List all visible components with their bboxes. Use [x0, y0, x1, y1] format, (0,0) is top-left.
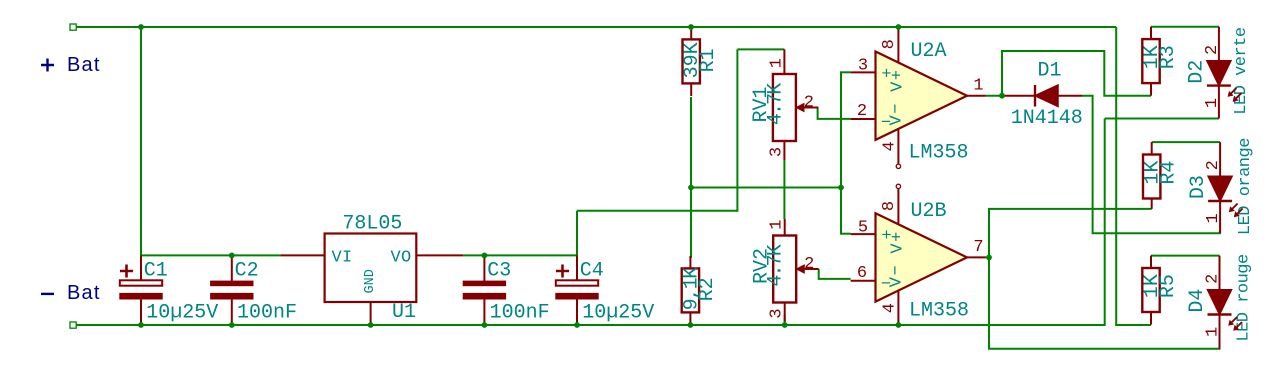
LED D4 body: [1208, 290, 1232, 315]
resistor R2 lead top: [689, 256, 691, 268]
op-amp U2A pin + input: [851, 71, 876, 73]
wire R5-D4 bridge: [1151, 255, 1220, 257]
svg-text:1: 1: [1204, 213, 1223, 223]
wire mid node horizontal: [691, 187, 841, 189]
wire U2B out node: [986, 256, 990, 258]
svg-text:U2A: U2A: [911, 40, 947, 63]
resistor R4 lead top: [1151, 142, 1153, 154]
op-amp U2B pin V+ line: [897, 188, 899, 224]
regulator U1 pin GND: [370, 302, 372, 325]
resistor R3 lead bottom: [1150, 83, 1152, 96]
junction (1002,95.7): [999, 93, 1005, 99]
op-amp U2B body: [876, 213, 968, 301]
diode D1 lead left: [1002, 95, 1035, 97]
svg-text:2: 2: [857, 102, 867, 121]
LED D2 emission arrows: [1229, 88, 1236, 95]
capacitor C1 lead bottom: [140, 299, 142, 325]
op-amp U2B pin V- line: [897, 291, 899, 325]
svg-text:C1: C1: [144, 260, 168, 283]
label - Bat: [41, 293, 54, 295]
svg-text:2: 2: [1203, 45, 1222, 55]
svg-text:2: 2: [1204, 274, 1223, 284]
svg-text:1: 1: [973, 77, 983, 96]
wire mid node to R2 top: [690, 188, 692, 259]
diode D1 body: [1035, 85, 1058, 107]
resistor R2 lead bottom: [689, 312, 691, 325]
resistor R1 lead bottom: [690, 83, 692, 96]
junction (841,187.5): [838, 185, 844, 191]
junction (784.7,325): [782, 322, 788, 328]
wire +Bat top rail: [77, 26, 1117, 28]
junction (141,325): [138, 322, 144, 328]
svg-text:3: 3: [767, 147, 786, 157]
regulator U1 pin VI: [280, 254, 324, 256]
svg-text:C2: C2: [235, 260, 259, 283]
svg-text:8: 8: [880, 39, 899, 49]
capacitor C4 lead top: [576, 255, 578, 281]
capacitor C3 bottom plate: [463, 293, 505, 299]
capacitor C2 lead bottom: [231, 299, 233, 325]
op-amp U2B pin - input: [851, 280, 876, 282]
svg-text:R5: R5: [1157, 274, 1180, 298]
svg-text:10µ25V: 10µ25V: [146, 302, 218, 325]
LED D3 lead bottom pin1: [1219, 201, 1221, 233]
LED D4 lead top pin2: [1219, 256, 1221, 290]
LED D2 cathode bar: [1207, 84, 1231, 86]
wire U2A out up-over to R3: [1002, 51, 1151, 96]
svg-text:4.7K: 4.7K: [764, 83, 787, 125]
op-amp U2B pin output: [967, 256, 986, 258]
LED D4 lead bottom pin1: [1219, 315, 1221, 349]
svg-text:4: 4: [881, 303, 900, 313]
svg-text:LED orange: LED orange: [1236, 138, 1255, 235]
svg-text:7: 7: [973, 238, 983, 257]
capacitor C4 bottom plate: [556, 293, 598, 299]
svg-text:4: 4: [881, 141, 900, 151]
svg-text:LM358: LM358: [909, 300, 969, 323]
diode D1 cathode bar: [1034, 85, 1036, 107]
capacitor C4 top plate (polarized): [556, 280, 598, 285]
svg-text:1: 1: [768, 220, 787, 230]
svg-text:V−: V−: [888, 264, 907, 287]
wire 5V rail horizontal: [577, 210, 737, 212]
resistor R4 lead bottom: [1151, 199, 1153, 209]
LED D3 emission arrows: [1231, 204, 1238, 211]
junction (484.4,325): [482, 322, 488, 328]
svg-text:1: 1: [767, 58, 786, 68]
capacitor C3 lead bottom: [483, 299, 485, 325]
svg-text:D4: D4: [1186, 289, 1209, 313]
wire U2A pin3 stub: [840, 71, 851, 73]
svg-text:100nF: 100nF: [237, 302, 297, 325]
svg-text:VI: VI: [332, 248, 353, 267]
svg-text:2: 2: [1204, 160, 1223, 170]
potentiometer RV1 wiper pin2: [803, 107, 818, 109]
op-amp U2A pin4 no-connect circle: [896, 164, 900, 168]
label + Bat: [41, 59, 54, 72]
capacitor C2 top plate: [211, 281, 253, 286]
potentiometer RV2 pin1 lead: [784, 219, 786, 236]
op-amp U2A body: [876, 52, 968, 140]
LED D2 body: [1207, 61, 1231, 86]
svg-text:R3: R3: [1157, 45, 1180, 69]
junction (691,27): [688, 24, 694, 30]
resistor R5 lead top: [1150, 256, 1152, 268]
wire R3-D2 top bridge: [1151, 26, 1219, 28]
wire U2B out up to R4: [989, 209, 1152, 257]
LED D3 body: [1208, 176, 1232, 201]
junction (370.6,325): [368, 322, 374, 328]
capacitor C4 plus sign: [556, 265, 569, 278]
wire ref vertical pin3-pin5: [840, 72, 842, 233]
svg-text:C3: C3: [487, 260, 511, 283]
capacitor C4 lead bottom: [576, 299, 578, 325]
wire RV1 pin3 to RV2 pin1: [783, 160, 785, 219]
terminal + Bat: [70, 24, 76, 30]
svg-text:1N4148: 1N4148: [1011, 107, 1083, 130]
junction (141,27): [138, 24, 144, 30]
LED D4 emission arrows: [1230, 317, 1237, 324]
svg-text:U1: U1: [392, 301, 416, 324]
svg-text:Bat: Bat: [67, 282, 101, 304]
wire RV1 pin1 bridge: [737, 48, 784, 50]
wire -Bat bottom rail: [77, 324, 1105, 326]
capacitor C2 bottom plate: [211, 293, 253, 299]
wire RV2 pin3 to -Bat: [784, 315, 786, 325]
wire U2A out node: [986, 95, 1003, 97]
terminal - Bat: [70, 322, 76, 328]
op-amp U2A pin output: [967, 95, 986, 97]
svg-text:V−: V−: [888, 102, 907, 125]
LED D3 lead top pin2: [1219, 142, 1221, 176]
wire +Bat right vertical: [1115, 27, 1117, 325]
LED D3 cathode bar: [1208, 200, 1232, 202]
LED D2 lead top pin2: [1218, 27, 1220, 61]
junction (231.8,255.4): [229, 253, 235, 259]
resistor R2 body: [682, 268, 699, 312]
wire 5V rail to RV1 pin1 vertical: [736, 49, 738, 211]
svg-text:V+: V+: [889, 230, 908, 253]
wire RV1 wiper jog: [818, 108, 851, 119]
svg-text:3: 3: [858, 57, 868, 76]
potentiometer RV1 pin1 lead: [783, 49, 785, 74]
op-amp U2B pin8 no-connect circle: [896, 184, 900, 188]
wire +Bat to R5 bottom: [1115, 324, 1151, 326]
svg-text:Bat: Bat: [67, 54, 101, 76]
junction (691,187.5): [688, 185, 694, 191]
resistor R3 body: [1142, 39, 1159, 83]
svg-text:D2: D2: [1186, 60, 1209, 84]
svg-text:5: 5: [858, 218, 868, 237]
resistor R4 body: [1143, 155, 1160, 199]
svg-text:2: 2: [804, 255, 814, 274]
capacitor C1 bottom plate: [120, 293, 162, 299]
op-amp U2A pin V- line: [897, 129, 899, 165]
resistor R1 body: [683, 39, 700, 83]
svg-text:R2: R2: [696, 277, 719, 301]
svg-text:D3: D3: [1187, 175, 1210, 199]
potentiometer RV2 pin3 lead: [784, 303, 786, 322]
svg-text:V+: V+: [889, 68, 908, 91]
capacitor C1 top plate (polarized): [120, 280, 162, 285]
wire C1 top from +Bat: [140, 27, 142, 255]
junction (577,325): [574, 322, 580, 328]
wire D2 cathode horizontal: [1105, 118, 1219, 120]
potentiometer RV2 body: [773, 236, 796, 303]
capacitor C1 lead top: [140, 255, 142, 281]
regulator U1 pin VO: [416, 254, 463, 256]
svg-text:6: 6: [857, 264, 867, 283]
LED D4 cathode bar: [1208, 313, 1232, 315]
capacitor C3 top plate: [463, 281, 505, 286]
wire RV2 wiper jog: [819, 269, 851, 279]
diode D1 lead right: [1058, 95, 1082, 97]
svg-text:100nF: 100nF: [490, 302, 550, 325]
svg-text:LED verte: LED verte: [1232, 27, 1251, 115]
svg-text:1: 1: [1203, 98, 1222, 108]
wire D1 anode to D3 cathode: [1082, 96, 1220, 234]
svg-text:R4: R4: [1158, 161, 1181, 185]
capacitor C1 plus sign: [120, 265, 133, 278]
junction (690.4,325): [688, 322, 694, 328]
wire U2B out down to D4: [989, 258, 1220, 348]
junction (898.4,27): [896, 24, 902, 30]
resistor R5 lead bottom: [1150, 312, 1152, 325]
LED D2 lead bottom pin1: [1218, 86, 1220, 119]
svg-text:1: 1: [1204, 327, 1223, 337]
wire R1 bottom to mid node: [690, 97, 692, 188]
wire 5V rail up: [576, 211, 578, 257]
wire C1-C2-U1 VI: [140, 254, 280, 256]
svg-text:3: 3: [768, 308, 787, 318]
op-amp U2A pin V+ line: [897, 27, 899, 63]
svg-text:R1: R1: [697, 48, 720, 72]
svg-text:GND: GND: [363, 269, 378, 293]
potentiometer RV1 body: [773, 74, 796, 141]
resistor R1 lead top: [690, 27, 692, 39]
potentiometer RV1 pin3 lead: [783, 141, 785, 160]
svg-text:VO: VO: [391, 248, 412, 267]
svg-text:78L05: 78L05: [342, 213, 402, 236]
wire U2B pin5 stub: [840, 233, 851, 235]
resistor R3 lead top: [1150, 27, 1152, 39]
wire R4-D3 bridge: [1152, 141, 1220, 143]
capacitor C3 lead top: [483, 255, 485, 281]
resistor R5 body: [1142, 268, 1159, 312]
capacitor C2 lead top: [231, 255, 233, 281]
junction (484.4,255.4): [482, 253, 488, 259]
svg-text:8: 8: [880, 201, 899, 211]
junction (989,257.4): [986, 255, 992, 261]
op-amp U2A pin - input: [851, 118, 876, 120]
regulator U1 78L05 body: [325, 234, 417, 303]
svg-text:C4: C4: [580, 260, 604, 283]
svg-text:D1: D1: [1038, 60, 1062, 83]
wire U1 VO to C3/C4: [463, 254, 577, 256]
potentiometer RV2 wiper pin2: [804, 268, 819, 270]
junction (231.8,325): [229, 322, 235, 328]
svg-text:4.7K: 4.7K: [765, 244, 788, 286]
svg-text:LM358: LM358: [909, 142, 969, 165]
svg-text:U2B: U2B: [911, 200, 947, 223]
junction (898.4,325): [896, 322, 902, 328]
op-amp U2B pin + input: [851, 233, 876, 235]
svg-text:10µ25V: 10µ25V: [582, 302, 654, 325]
wire D2 cathode vertical: [1104, 119, 1106, 327]
svg-text:2: 2: [804, 94, 814, 113]
